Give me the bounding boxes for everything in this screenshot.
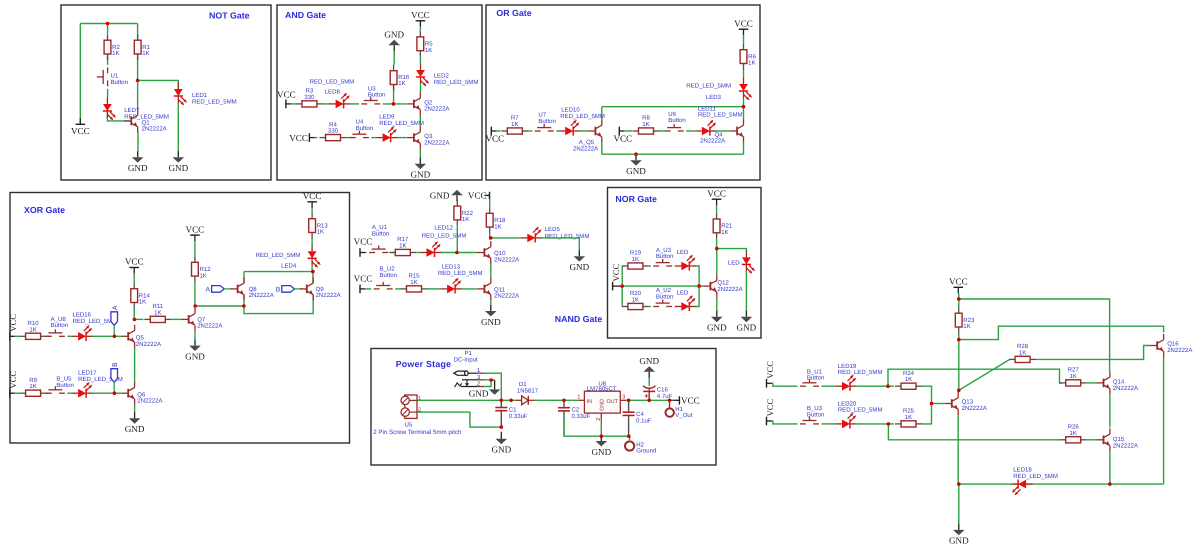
- svg-text:LED5: LED5: [545, 226, 561, 233]
- R25 value 1K: [905, 414, 912, 421]
- wire bus to Q4 collector: [743, 107, 745, 120]
- A_U2 label: [656, 287, 672, 294]
- R2 label: [112, 44, 120, 51]
- wire Q11 emitter to GND: [490, 300, 492, 305]
- R5 label: [425, 41, 433, 48]
- transistor Q9: [300, 277, 313, 300]
- wire U6 to LED11: [686, 130, 695, 132]
- svg-text:Button: Button: [807, 375, 824, 382]
- transistor A_Q5: [588, 120, 601, 143]
- junction at B flag: [113, 391, 117, 395]
- R14 label: [139, 292, 151, 299]
- U1 value Button: [111, 79, 128, 86]
- svg-text:Q6: Q6: [137, 391, 146, 398]
- R10 value 1K: [29, 326, 36, 333]
- R23 label: [963, 317, 975, 324]
- svg-text:VCC: VCC: [411, 10, 430, 20]
- svg-text:VCC: VCC: [354, 274, 373, 284]
- svg-text:B_U1: B_U1: [807, 368, 823, 375]
- wire junction to LED1: [138, 80, 179, 89]
- junction at LED4 cathode: [311, 270, 315, 274]
- section title NOT Gate: [209, 11, 250, 21]
- resistor R20: [622, 303, 649, 309]
- svg-text:LED2: LED2: [434, 73, 450, 80]
- svg-text:OR Gate: OR Gate: [496, 8, 531, 18]
- test point H2 Ground: [625, 441, 634, 450]
- B_U2 label: [380, 266, 396, 273]
- wire to H2: [628, 436, 631, 440]
- svg-text:Q11: Q11: [494, 286, 506, 293]
- wire C2 to gnd rail: [563, 411, 565, 436]
- button U3: [361, 97, 380, 104]
- wire Q12 emitter to GND: [716, 298, 718, 311]
- svg-text:1K: 1K: [399, 243, 406, 250]
- junction Q15 emitter: [1108, 482, 1112, 486]
- OR Gate section box: [486, 5, 760, 180]
- svg-text:330: 330: [304, 94, 315, 101]
- svg-text:VCC: VCC: [681, 395, 700, 405]
- LED lower label: [677, 290, 689, 297]
- svg-text:R28: R28: [1017, 343, 1029, 350]
- resistor R1: [134, 34, 141, 60]
- wire to R26: [888, 424, 1061, 440]
- R22 label: [462, 210, 474, 217]
- R12 value 1K: [200, 272, 207, 279]
- wire to R23: [958, 299, 960, 307]
- resistor R16: [390, 65, 397, 91]
- LED10 value: [560, 113, 605, 120]
- svg-text:1K: 1K: [29, 383, 36, 390]
- resistor R11: [144, 316, 171, 322]
- LED LED8: [329, 93, 350, 109]
- Q13 label: [962, 399, 974, 406]
- power flag VCC upper left: [354, 236, 373, 256]
- svg-text:VCC: VCC: [354, 236, 373, 246]
- ground after LED5: [569, 250, 589, 272]
- C4 label: [636, 411, 644, 418]
- U8 value: [587, 386, 617, 393]
- section title Power Stage: [396, 359, 452, 369]
- LED20 value: [838, 407, 883, 414]
- svg-text:1K: 1K: [721, 229, 728, 236]
- svg-text:VCC: VCC: [186, 224, 205, 234]
- LED8 label: [325, 88, 341, 95]
- U7 value Button: [538, 118, 555, 125]
- svg-text:LED8: LED8: [325, 88, 341, 95]
- wire to VCC flag: [79, 24, 81, 124]
- junction rail at C4: [627, 399, 631, 403]
- Q15 value: [1113, 442, 1139, 449]
- wire R10 to A_U8: [47, 335, 50, 337]
- transistor Q1: [124, 110, 137, 133]
- resistor R27: [1060, 380, 1087, 386]
- Q12 value: [717, 286, 743, 293]
- svg-text:U7: U7: [538, 112, 546, 119]
- Q10 label: [494, 250, 506, 257]
- B_U3 label: [807, 405, 823, 412]
- R2 value 1K: [112, 50, 119, 57]
- wire down to Q13 collector: [958, 340, 960, 391]
- svg-text:Button: Button: [656, 293, 673, 300]
- junction Q13 collector node: [957, 389, 961, 393]
- wire R23 to Q16 collector: [959, 326, 1164, 339]
- ground under Q12: [707, 311, 727, 333]
- wire rail to C4: [628, 400, 630, 412]
- junction at emitter bus: [242, 304, 246, 308]
- svg-text:P1: P1: [465, 350, 473, 357]
- button A_U8: [46, 329, 65, 336]
- junction at VCC bus: [620, 284, 624, 288]
- svg-text:VCC: VCC: [8, 314, 18, 332]
- svg-text:Power Stage: Power Stage: [396, 359, 452, 369]
- R4 value 330: [328, 128, 339, 135]
- wire to Q13 base: [932, 403, 945, 405]
- LED10 label: [561, 107, 580, 114]
- wire LED12 to Q10 base: [441, 252, 478, 254]
- svg-text:VCC: VCC: [8, 371, 18, 389]
- button U1: [97, 67, 108, 86]
- junction GND corner: [957, 482, 961, 486]
- LED LED4: [308, 245, 321, 268]
- LED1 label: [192, 92, 208, 99]
- LED17 value: [78, 376, 123, 383]
- svg-text:2N2222A: 2N2222A: [424, 139, 450, 146]
- wire U4 to LED9: [371, 137, 376, 139]
- svg-text:R17: R17: [397, 236, 409, 243]
- LED7 label: [124, 107, 140, 114]
- svg-text:1K: 1K: [511, 121, 518, 128]
- net flag B input flag at Q9: [276, 286, 303, 294]
- junction at A flag: [113, 335, 117, 339]
- ground of OR stage: [626, 154, 646, 176]
- svg-text:1K: 1K: [748, 60, 755, 67]
- capacitor C4: [623, 412, 635, 415]
- wire GND to R22: [456, 200, 458, 201]
- wire junction to R11: [134, 318, 143, 320]
- wire collector bus: [602, 106, 744, 108]
- wire U5 pin2 to C1 gnd: [417, 412, 501, 427]
- wire LED9 to Q3 base: [397, 137, 407, 139]
- svg-text:R3: R3: [306, 88, 314, 95]
- wire VCC to R18: [489, 199, 491, 207]
- ground under LED1: [168, 151, 188, 173]
- Q4 value: [700, 138, 726, 145]
- capacitor C1: [495, 408, 507, 411]
- wire to R2: [107, 24, 109, 34]
- wire LED5 to GND: [541, 238, 579, 251]
- wire R24 to Q13 base node: [922, 386, 932, 403]
- R9 label: [29, 377, 37, 384]
- resistor R21: [713, 213, 720, 239]
- Q2 value: [424, 106, 450, 113]
- LED4 label: [281, 263, 297, 270]
- R8 value 1K: [642, 121, 649, 128]
- svg-text:RED_LED_5MM: RED_LED_5MM: [192, 98, 237, 105]
- svg-text:C2: C2: [572, 407, 580, 414]
- wire R16 to junction: [393, 85, 395, 104]
- LED17 label: [78, 370, 97, 377]
- button U7: [535, 124, 554, 131]
- svg-text:R6: R6: [748, 53, 756, 60]
- power flag VCC lower left: [8, 371, 18, 398]
- NOR Gate section box: [608, 188, 762, 339]
- A_U2 value Button: [656, 293, 673, 300]
- resistor R12: [192, 256, 199, 282]
- svg-text:R22: R22: [462, 210, 474, 217]
- resistor R10: [20, 333, 47, 339]
- LED1 value: [192, 98, 237, 105]
- svg-text:LED13: LED13: [442, 264, 461, 271]
- U6 label: [668, 111, 676, 118]
- R12 label: [200, 266, 212, 273]
- resistor R25: [895, 421, 922, 427]
- transistor Q3: [407, 126, 420, 149]
- U8 label: [598, 381, 606, 388]
- svg-text:0.33uF: 0.33uF: [509, 413, 528, 420]
- wire junction to Q1 collector: [137, 80, 139, 110]
- svg-text:Q9: Q9: [316, 286, 325, 293]
- U8 pin 3: [622, 393, 625, 400]
- resistor R3: [296, 101, 323, 107]
- R17 label: [397, 236, 409, 243]
- wire LED3 to junction: [743, 98, 745, 107]
- LED LED16: [72, 325, 93, 341]
- transistor Q6: [121, 382, 134, 405]
- wire VCC to Q14 collector: [959, 299, 1110, 371]
- wire Q5 emitter to Q6 collector: [134, 348, 136, 382]
- svg-text:U6: U6: [668, 111, 676, 118]
- wire R5 to LED2: [419, 57, 421, 64]
- R19 value 1K: [632, 256, 639, 263]
- wire rail to C1: [500, 400, 502, 407]
- wire upper LED to junction: [695, 266, 699, 286]
- wire GND to R16: [393, 51, 395, 64]
- svg-text:RED_LED_5MM: RED_LED_5MM: [698, 112, 743, 119]
- wire P1 pin2: [484, 380, 492, 387]
- wire LED16 to Q5 base: [92, 335, 121, 337]
- wire LED17 to Q6 base: [92, 392, 121, 394]
- R25 label: [903, 408, 915, 415]
- LED9 label: [379, 114, 395, 121]
- svg-text:LED1: LED1: [192, 92, 208, 99]
- U5 pin 1: [418, 395, 422, 402]
- H2 value Ground: [636, 448, 656, 455]
- wire LED8 to U3: [350, 103, 359, 105]
- junction at Q12 base net: [697, 284, 701, 288]
- svg-text:LED12: LED12: [434, 224, 453, 231]
- wire R14 to junction: [133, 309, 135, 320]
- power flag VCC: [71, 118, 90, 136]
- svg-text:R21: R21: [721, 223, 733, 230]
- A_Q5 label: [579, 139, 595, 146]
- LED output label: [728, 259, 740, 266]
- svg-text:1K: 1K: [494, 223, 501, 230]
- wire Q8/Q9 collector bus: [244, 271, 313, 273]
- svg-text:Button: Button: [51, 322, 68, 329]
- svg-text:R4: R4: [329, 121, 337, 128]
- R13 value 1K: [317, 229, 324, 236]
- power flag VCC top: [949, 277, 968, 294]
- Q5 label: [136, 335, 145, 342]
- button U6: [665, 124, 684, 131]
- transistor Q16: [1150, 334, 1163, 357]
- svg-text:2N2222A: 2N2222A: [700, 138, 726, 145]
- wire rail to C2: [563, 400, 565, 407]
- power flag VCC above R13: [303, 191, 322, 208]
- wire R23 to junction: [958, 333, 960, 340]
- C4 value 0.1uF: [636, 418, 652, 425]
- ground under Q6: [125, 412, 145, 434]
- svg-text:RED_LED_5MM: RED_LED_5MM: [256, 252, 301, 259]
- XOR Gate section box: [10, 193, 350, 444]
- wire U3 to Q2 base: [383, 103, 407, 105]
- svg-text:VCC: VCC: [277, 90, 296, 100]
- svg-text:LED: LED: [677, 290, 689, 297]
- LED5 label: [545, 226, 561, 233]
- power flag VCC left: [485, 127, 504, 144]
- svg-text:DC-Input: DC-Input: [454, 357, 479, 364]
- test point H1 V_Out: [666, 400, 674, 417]
- wire junction to output LED: [717, 249, 747, 252]
- button B_U1: [800, 379, 819, 386]
- resistor R28: [1009, 356, 1036, 362]
- ground under output LED: [737, 311, 757, 333]
- R3 value 330: [304, 94, 315, 101]
- svg-text:GND: GND: [591, 447, 611, 457]
- wire Q2 emitter to Q3 collector: [419, 115, 421, 126]
- transistor Q12: [703, 275, 716, 298]
- svg-text:VCC: VCC: [71, 126, 90, 136]
- R8 label: [642, 115, 650, 122]
- wire ground rail: [564, 418, 629, 436]
- LED LED3: [739, 78, 752, 101]
- P1 pin leads: [477, 373, 484, 386]
- Q16 value: [1167, 347, 1193, 354]
- wire junction to Q12 collector: [716, 249, 718, 275]
- wire LED20 to R25: [856, 423, 894, 425]
- junction P1 pins 2-3: [489, 378, 493, 382]
- Q8 label: [249, 286, 258, 293]
- wire VCC to R9: [15, 392, 20, 394]
- capacitor C16: [643, 386, 656, 398]
- wire bus to R19: [621, 265, 623, 267]
- junction LED20 output: [887, 422, 891, 426]
- svg-text:Button: Button: [372, 230, 389, 237]
- svg-text:1K: 1K: [642, 121, 649, 128]
- ground under U8: [591, 436, 611, 457]
- wire D1 to U8: [535, 399, 579, 401]
- regulator U8 LM7805CT: [579, 391, 627, 419]
- B_U5 value Button: [56, 382, 73, 389]
- resistor R18: [486, 207, 493, 233]
- junction at VCC rail: [106, 22, 110, 26]
- svg-text:U4: U4: [356, 119, 364, 126]
- LED16 label: [73, 312, 92, 319]
- svg-text:2N2222A: 2N2222A: [316, 292, 342, 299]
- wire junction to LED5: [491, 237, 521, 239]
- connector U5 screw terminal: [401, 395, 417, 418]
- svg-text:1K: 1K: [905, 414, 912, 421]
- R21 value 1K: [721, 229, 728, 236]
- svg-text:LED9: LED9: [379, 114, 395, 121]
- wire R7 to U7: [528, 130, 532, 132]
- R28 label: [1017, 343, 1029, 350]
- svg-text:1K: 1K: [905, 376, 912, 383]
- wire R17 to LED12: [416, 252, 420, 254]
- wire U8 out rail: [626, 399, 669, 401]
- svg-text:A: A: [206, 287, 211, 294]
- svg-text:LED16: LED16: [73, 312, 92, 319]
- wire C4 to gnd rail: [628, 415, 630, 436]
- R20 label: [630, 290, 642, 297]
- wire diagonal to R28: [959, 359, 1010, 390]
- svg-text:U3: U3: [368, 85, 376, 92]
- power flag VCC output: [674, 395, 699, 405]
- Q11 label: [494, 286, 506, 293]
- LED7 value: [124, 113, 169, 120]
- svg-text:C1: C1: [509, 407, 517, 414]
- resistor R2: [104, 34, 111, 60]
- svg-text:2N2222A: 2N2222A: [136, 341, 162, 348]
- Q16 label: [1167, 341, 1179, 348]
- connector P1 DC jack barrel: [454, 371, 477, 376]
- wire A_U8 to LED16: [67, 335, 71, 337]
- R16 label: [398, 74, 410, 81]
- svg-text:R7: R7: [511, 115, 519, 122]
- wire A_U3 to LED: [674, 265, 676, 267]
- connector P1 pin 3 contact: [462, 380, 477, 386]
- svg-text:B_U2: B_U2: [380, 266, 396, 273]
- transistor Q10: [477, 241, 490, 264]
- button A_U2: [653, 300, 672, 307]
- wire rail U5 to D1: [417, 399, 515, 401]
- svg-text:U5: U5: [405, 421, 413, 428]
- power flag VCC mid: [613, 127, 632, 144]
- junction LED19 output: [886, 384, 890, 388]
- Q4 label: [715, 131, 724, 138]
- wire to GND: [958, 484, 960, 524]
- svg-text:VCC: VCC: [613, 134, 632, 144]
- svg-text:VCC: VCC: [949, 277, 968, 287]
- LED LED output: [742, 251, 755, 274]
- Power Stage section box: [371, 349, 716, 466]
- wire VCC to R5: [419, 27, 421, 31]
- R20 value 1K: [632, 297, 639, 304]
- svg-text:2N2222A: 2N2222A: [197, 323, 223, 330]
- svg-text:VCC: VCC: [611, 264, 621, 282]
- wire R2 to U1: [107, 54, 109, 65]
- svg-text:R5: R5: [425, 41, 433, 48]
- wire VCC to R6: [743, 35, 745, 43]
- svg-text:2N2222A: 2N2222A: [962, 405, 988, 412]
- wire LED2 to Q2 collector: [420, 84, 422, 93]
- svg-text:XOR Gate: XOR Gate: [24, 205, 65, 215]
- svg-text:VCC: VCC: [289, 133, 308, 143]
- junction at LED3 collector net: [742, 105, 746, 109]
- svg-text:Q13: Q13: [962, 399, 974, 406]
- svg-text:2N2222A: 2N2222A: [1113, 385, 1139, 392]
- wire R26 to Q15 base: [1087, 439, 1097, 441]
- wire Q5 emitter to bus: [601, 143, 603, 155]
- svg-text:R27: R27: [1068, 367, 1080, 374]
- svg-text:1K: 1K: [1069, 430, 1076, 437]
- svg-text:Q7: Q7: [197, 316, 206, 323]
- resistor R15: [401, 286, 428, 292]
- U4 label: [356, 119, 364, 126]
- wire Q9 emitter loop: [244, 295, 313, 314]
- wire Q10 emitter to Q11 collector: [490, 264, 492, 277]
- wire VCC to B_U3: [770, 421, 797, 424]
